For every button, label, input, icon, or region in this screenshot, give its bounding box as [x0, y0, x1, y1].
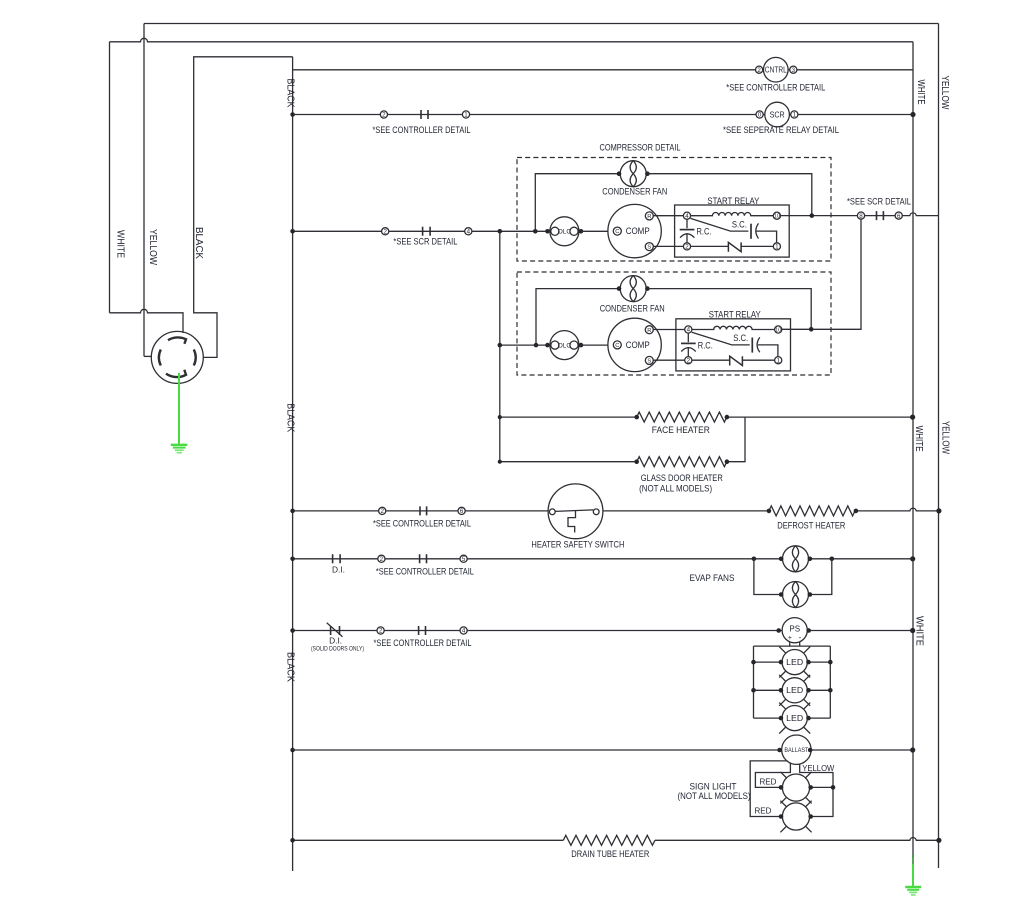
wire ps outputs down	[790, 642, 800, 646]
pin 2 contact row6	[377, 627, 384, 635]
junction evap branch left	[752, 557, 757, 562]
svg-text:(NOT ALL MODELS): (NOT ALL MODELS)	[639, 484, 712, 494]
wire relay pin10 output unit1	[781, 215, 858, 217]
svg-text:2: 2	[380, 508, 384, 515]
junction fan1 left/right evap	[779, 557, 784, 562]
svg-text:4: 4	[467, 229, 471, 236]
start capacitor S.C. unit2 with switch arm	[692, 332, 778, 356]
junction ballast left/right	[777, 748, 782, 753]
resistor drain tube heater	[563, 835, 655, 845]
junction evap branch right	[830, 557, 835, 562]
junction OLC left unit1	[545, 229, 550, 234]
svg-text:CNTRL: CNTRL	[765, 66, 787, 75]
wire yellow top horizontal	[144, 23, 939, 25]
led lamp 1	[779, 647, 810, 678]
svg-text:(NOT ALL MODELS): (NOT ALL MODELS)	[678, 791, 751, 801]
ground wire right green	[912, 855, 914, 887]
relay coil unit1	[691, 212, 774, 215]
pin 4 contact row3	[465, 228, 472, 236]
resistor glass door heater	[637, 457, 727, 467]
svg-text:0: 0	[758, 112, 762, 119]
relay coil unit2	[692, 326, 775, 329]
svg-text:C: C	[615, 343, 619, 349]
junction OLC left unit2	[545, 343, 550, 348]
junction fan left unit2	[617, 286, 622, 291]
wire black left bus vertical	[292, 57, 294, 871]
svg-text:R.C.: R.C.	[697, 227, 712, 237]
led lamp 3	[779, 703, 810, 734]
wire lamp1 right to rail	[810, 786, 833, 788]
junction resistor ends face heater	[634, 415, 639, 420]
svg-text:LED: LED	[786, 686, 803, 695]
wire fan branch unit2	[536, 289, 619, 346]
led lamp 2	[779, 675, 810, 706]
overload OLC unit2	[550, 331, 579, 360]
svg-text:2: 2	[383, 229, 387, 236]
svg-text:+: +	[788, 635, 792, 642]
wire relay bottom with N element unit2	[692, 359, 775, 361]
svg-text:10: 10	[774, 214, 780, 220]
junction white bus row7	[910, 747, 915, 752]
resistor face heater	[637, 412, 727, 422]
N element unit2	[730, 356, 743, 365]
junction lamp2	[779, 814, 784, 819]
junction black bus row5	[290, 557, 295, 562]
junction fan right unit1	[645, 171, 650, 176]
plug right slot	[194, 350, 196, 366]
plug left slot	[159, 350, 161, 366]
junction ps left/right	[776, 628, 781, 633]
junction black bus row6	[290, 628, 295, 633]
wire led top rail	[754, 645, 831, 647]
junction fan right unit2	[645, 286, 650, 291]
junction OLC right unit2	[579, 343, 584, 348]
junction white bus row6	[910, 628, 915, 633]
pin 1 relay unit2	[775, 357, 782, 365]
svg-text:FACE HEATER: FACE HEATER	[652, 425, 710, 435]
wire SCR row	[293, 114, 913, 116]
svg-text:DRAIN TUBE HEATER: DRAIN TUBE HEATER	[571, 849, 649, 859]
svg-text:(SOLID DOORS ONLY): (SOLID DOORS ONLY)	[311, 645, 364, 652]
svg-text:2: 2	[382, 112, 386, 119]
junction fan left unit1	[617, 171, 622, 176]
svg-text:WHITE: WHITE	[915, 80, 926, 105]
pin 5 contact row5	[460, 555, 467, 563]
svg-text:*SEE CONTROLLER DETAIL: *SEE CONTROLLER DETAIL	[373, 125, 471, 135]
compressor COMP unit1	[608, 204, 661, 257]
wire fan branch unit1	[535, 174, 619, 232]
wire led right rail	[829, 646, 831, 718]
wire face heater row	[500, 416, 912, 418]
svg-text:*SEE SCR DETAIL: *SEE SCR DETAIL	[393, 236, 457, 246]
wire comp R to relay pin4 unit1	[653, 215, 683, 217]
svg-text:LED: LED	[786, 658, 803, 667]
wire fan right to relay output unit2	[647, 289, 811, 330]
wire OLC to comp unit2	[581, 344, 613, 346]
wire ps row	[293, 630, 913, 632]
wire white to plug top with hop over yellow vertical	[110, 309, 184, 333]
svg-text:WHITE: WHITE	[913, 426, 924, 452]
wire ballast case to outer rail	[750, 761, 787, 817]
pin 4 relay unit1	[683, 212, 690, 220]
svg-text:CONDENSER FAN: CONDENSER FAN	[602, 186, 667, 196]
wire comp S to relay pin2 unit1	[653, 245, 683, 247]
run capacitor R.C. unit1	[680, 219, 695, 243]
controller CNTRL	[764, 57, 789, 82]
junction led2	[751, 688, 756, 693]
earth ground symbol right	[905, 887, 921, 895]
pin 2 contact row3	[382, 228, 389, 236]
svg-text:4: 4	[685, 213, 689, 220]
svg-text:SCR: SCR	[770, 110, 785, 120]
svg-text:2: 2	[379, 628, 383, 635]
wire main row unit2	[500, 344, 552, 346]
evap fan motor 2	[783, 582, 809, 608]
wire yellow to plug left	[144, 355, 152, 357]
overload OLC unit1	[550, 217, 579, 246]
svg-text:8: 8	[859, 213, 863, 220]
pin 2 contact row5	[378, 555, 385, 563]
junction face heater on white bus	[910, 415, 915, 420]
junction relay output / fan unit1	[810, 213, 815, 218]
svg-text:BLACK: BLACK	[285, 403, 296, 432]
svg-text:3: 3	[792, 67, 796, 74]
wire ballast row	[293, 749, 913, 751]
svg-text:4: 4	[687, 327, 691, 334]
wire comp R to relay pin4 unit2	[653, 329, 684, 331]
wire led left rail	[753, 646, 755, 718]
svg-text:YELLOW: YELLOW	[147, 229, 158, 265]
junction black bus row4	[290, 509, 295, 514]
wire yellow right bus vertical	[938, 24, 940, 869]
connector scr right	[877, 211, 884, 220]
wire evap row	[293, 558, 913, 560]
run capacitor R.C. unit2	[681, 333, 696, 357]
svg-text:*SEE CONTROLLER DETAIL: *SEE CONTROLLER DETAIL	[374, 638, 472, 648]
svg-text:YELLOW: YELLOW	[939, 76, 950, 110]
svg-text:6: 6	[460, 508, 464, 515]
wire scr-detail row left	[293, 230, 552, 232]
svg-text:1: 1	[464, 112, 468, 119]
svg-text:-: -	[799, 633, 802, 642]
svg-text:OLC: OLC	[558, 343, 571, 350]
wire white top horizontal with hop over yellow vertical	[110, 38, 914, 41]
svg-text:S.C.: S.C.	[733, 333, 748, 343]
svg-text:2: 2	[757, 67, 761, 74]
connector D.I. crossed row6	[327, 623, 343, 637]
pin 1 of SCR	[791, 111, 798, 119]
wire ballast right output yellow path	[800, 764, 833, 817]
junction on white bus row2	[910, 112, 915, 117]
pin 10 relay unit2	[775, 326, 782, 334]
junction drain on yellow bus	[936, 838, 941, 843]
wire OLC to comp unit1	[581, 230, 613, 232]
pin 2 relay unit1	[683, 243, 690, 251]
svg-text:5: 5	[462, 556, 466, 563]
junction black bus row7	[290, 748, 295, 753]
svg-text:10: 10	[775, 327, 781, 333]
pin 1 relay unit1	[773, 243, 780, 251]
svg-text:*SEE SEPERATE RELAY DETAIL: *SEE SEPERATE RELAY DETAIL	[723, 125, 839, 135]
connector row4	[420, 506, 427, 515]
wire yellow left vertical	[143, 24, 145, 357]
connector row2	[421, 110, 428, 119]
svg-text:*SEE CONTROLLER DETAIL: *SEE CONTROLLER DETAIL	[726, 82, 825, 92]
svg-text:2: 2	[687, 357, 691, 364]
svg-text:D.I.: D.I.	[332, 564, 345, 574]
relay SCR	[765, 102, 790, 127]
svg-text:START RELAY: START RELAY	[707, 196, 759, 206]
wire black from plug right up and over	[194, 57, 293, 358]
wire defrost row	[293, 508, 939, 511]
pin 6 contact	[895, 212, 902, 220]
svg-text:WHITE: WHITE	[115, 230, 126, 258]
wire evap lower branch	[754, 559, 832, 595]
junction lamp1	[779, 785, 784, 790]
junction relay output / fan unit2	[809, 327, 814, 332]
pin 6 contact row4	[458, 507, 465, 515]
svg-text:6: 6	[897, 213, 901, 220]
svg-text:BLACK: BLACK	[285, 652, 296, 682]
svg-text:1: 1	[793, 112, 797, 119]
ground wire green	[178, 373, 180, 444]
svg-text:OLC: OLC	[558, 229, 571, 236]
junction fan2 left/right evap	[779, 592, 784, 597]
svg-text:R: R	[647, 214, 651, 220]
wire drain row	[293, 838, 939, 841]
condenser fan motor unit1	[620, 161, 646, 187]
svg-text:EVAP FANS: EVAP FANS	[690, 573, 735, 583]
svg-text:START RELAY: START RELAY	[709, 310, 761, 320]
wire CNTRL row	[293, 69, 913, 71]
dashed box compressor detail 1	[517, 158, 831, 262]
connector row3	[423, 227, 431, 236]
wire relay bottom with N element unit1	[691, 245, 774, 247]
junction black bus row3	[290, 229, 295, 234]
svg-text:*SEE CONTROLLER DETAIL: *SEE CONTROLLER DETAIL	[373, 519, 471, 529]
svg-text:DEFROST HEATER: DEFROST HEATER	[777, 521, 845, 531]
wire led3 stubs	[754, 717, 831, 719]
svg-text:D.I.: D.I.	[329, 635, 342, 645]
svg-text:CONDENSER FAN: CONDENSER FAN	[600, 303, 665, 313]
svg-text:2: 2	[685, 244, 689, 251]
junction branch to unit2	[498, 229, 503, 234]
junction left face heater	[498, 415, 502, 419]
junction fan branch unit2	[534, 343, 539, 348]
svg-text:*SEE CONTROLLER DETAIL: *SEE CONTROLLER DETAIL	[376, 566, 474, 576]
svg-text:YELLOW: YELLOW	[802, 763, 835, 773]
start capacitor S.C. unit1 with switch arm	[691, 218, 777, 242]
pin 2 contact row2	[380, 111, 387, 119]
wire comp S to relay pin2 unit2	[653, 359, 684, 361]
junction resistor ends glass heater	[634, 459, 639, 464]
red lamp 1	[780, 772, 811, 804]
start relay box unit2	[676, 319, 791, 371]
svg-text:COMPRESSOR DETAIL: COMPRESSOR DETAIL	[600, 142, 681, 152]
svg-text:GLASS DOOR HEATER: GLASS DOOR HEATER	[641, 473, 723, 483]
connector row6	[419, 626, 426, 635]
resistor defrost heater	[769, 506, 855, 516]
svg-text:RED: RED	[760, 776, 777, 786]
svg-text:BALLAST: BALLAST	[784, 747, 808, 754]
svg-text:RED: RED	[755, 806, 772, 816]
connector D.I. row5	[333, 554, 341, 563]
svg-text:4: 4	[462, 628, 466, 635]
svg-text:C: C	[615, 229, 619, 235]
junction led1	[751, 660, 756, 665]
svg-text:LED: LED	[786, 714, 803, 723]
junction black bus row8	[290, 838, 295, 843]
evap fan motor 1	[783, 546, 809, 572]
pin 2 contact row4	[379, 507, 386, 515]
svg-text:R.C.: R.C.	[698, 340, 713, 350]
svg-text:S: S	[647, 359, 651, 365]
junction branch unit2	[498, 343, 503, 348]
junction left glass heater	[498, 460, 502, 464]
N element unit1	[728, 242, 741, 251]
junction resistor ends defrost	[767, 509, 772, 514]
junction fan branch unit1	[533, 229, 538, 234]
svg-text:COMP: COMP	[626, 340, 650, 350]
power supply PS	[782, 618, 807, 643]
svg-text:2: 2	[380, 556, 384, 563]
wire fan right to relay output unit1	[647, 174, 811, 216]
wire relay pin10 output unit2 up to pin8	[782, 219, 861, 329]
pin 2 of CNTRL	[756, 66, 763, 74]
start relay box unit1	[675, 205, 790, 257]
pin 3 of CNTRL	[790, 66, 797, 74]
plug top slot	[168, 337, 186, 343]
earth ground symbol left	[171, 445, 188, 453]
svg-text:S.C.: S.C.	[732, 219, 747, 229]
junction led3	[779, 716, 784, 721]
pin 10 relay unit1	[773, 212, 780, 220]
wire between pin8 and pin6	[865, 215, 896, 217]
wire white right bus vertical	[912, 42, 914, 857]
heater safety switch	[548, 484, 603, 539]
svg-text:1: 1	[776, 357, 780, 364]
wire ballast left output red path	[755, 763, 790, 787]
wire glass door heater row	[500, 417, 745, 462]
red lamp 2	[780, 801, 811, 833]
junction on black bus row2	[290, 112, 295, 117]
condenser fan motor unit2	[620, 276, 646, 302]
junction OLC right unit1	[579, 229, 584, 234]
wire white left vertical	[109, 42, 111, 313]
ballast	[782, 735, 811, 764]
compressor COMP unit2	[608, 318, 661, 371]
plug bottom slot with hook	[166, 370, 186, 377]
pin 4 contact row6	[460, 627, 467, 635]
svg-text:R: R	[647, 328, 651, 334]
svg-text:S: S	[647, 245, 651, 251]
junction defrost on yellow bus	[936, 508, 941, 513]
svg-text:HEATER SAFETY SWITCH: HEATER SAFETY SWITCH	[531, 540, 624, 550]
pin 4 relay unit2	[685, 326, 692, 334]
dashed box compressor detail 2	[517, 272, 831, 375]
svg-text:BLACK: BLACK	[285, 79, 296, 108]
wire branch down to unit2 and heaters	[499, 231, 501, 461]
wire led2 stubs	[754, 689, 831, 691]
svg-text:*SEE SCR DETAIL: *SEE SCR DETAIL	[847, 196, 911, 206]
svg-text:YELLOW: YELLOW	[940, 421, 951, 454]
pin 8 contact	[857, 212, 864, 220]
pin 0 of SCR	[756, 111, 763, 119]
connector row5	[420, 554, 427, 563]
svg-text:1: 1	[775, 244, 779, 251]
pin 2 relay unit2	[685, 357, 692, 365]
wire pin6 to yellow bus with hop over white	[902, 213, 938, 216]
receptacle plug body	[151, 331, 203, 383]
svg-text:BLACK: BLACK	[193, 227, 204, 259]
svg-text:COMP: COMP	[626, 226, 650, 236]
junction white bus row5	[910, 556, 915, 561]
pin 1 contact row2	[462, 111, 469, 119]
wire led1 stubs	[754, 661, 831, 663]
